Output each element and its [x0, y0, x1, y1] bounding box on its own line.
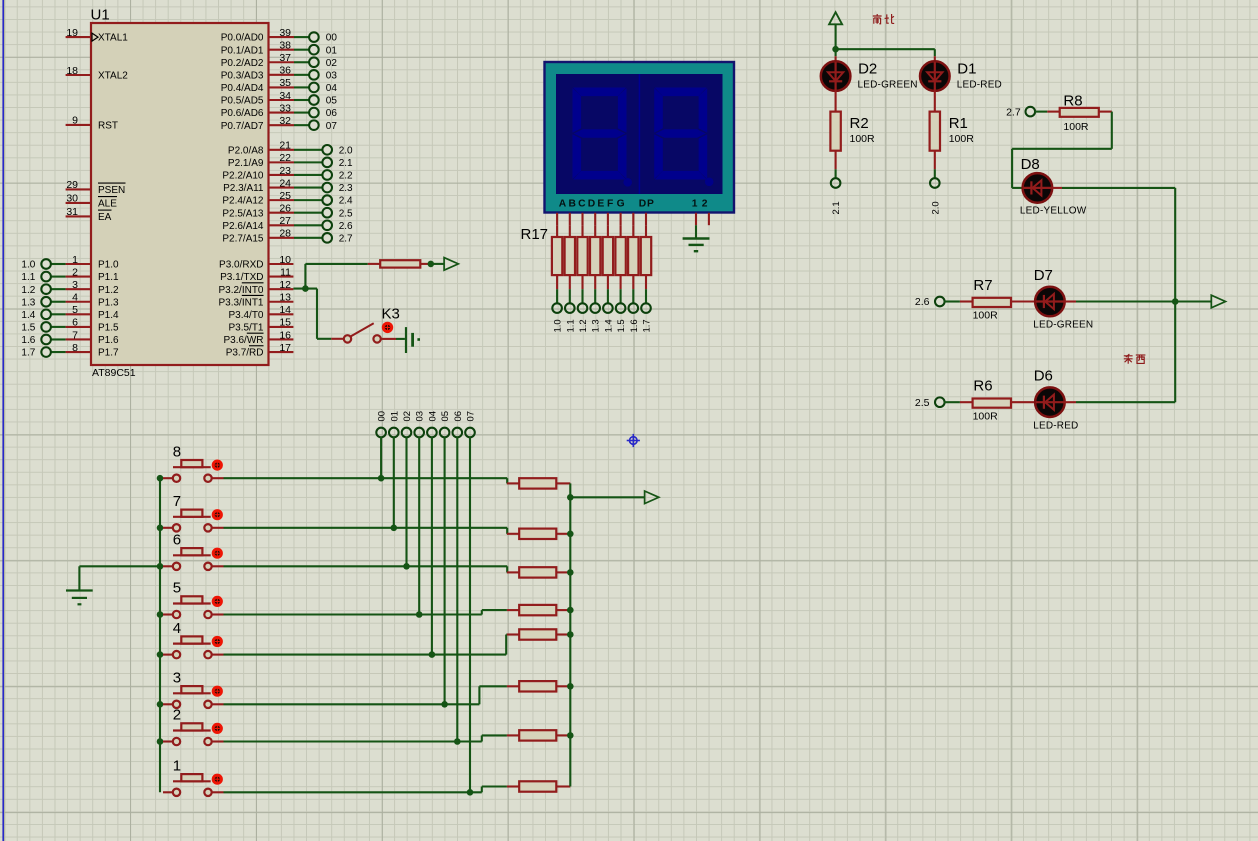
wire key 2 row	[212, 735, 507, 741]
svg-text:2.2: 2.2	[339, 171, 353, 182]
svg-text:3: 3	[72, 279, 78, 291]
svg-text:38: 38	[279, 39, 291, 51]
svg-text:100R: 100R	[973, 310, 999, 322]
svg-text:100R: 100R	[850, 133, 876, 145]
svg-text:06: 06	[453, 411, 464, 422]
pin 3 P1.2 with terminal 1.2	[21, 279, 119, 296]
svg-text:LED-RED: LED-RED	[957, 79, 1002, 90]
display common pin 2 (stub)	[708, 213, 710, 225]
svg-text:D1: D1	[957, 61, 976, 78]
wire key 8 row	[212, 478, 507, 483]
svg-text:100R: 100R	[1063, 121, 1089, 133]
pin 24 P2.3/A11 with terminal 2.3	[223, 177, 353, 194]
svg-text:11: 11	[280, 266, 291, 278]
pin 38 P0.1/AD1 with terminal 01	[221, 39, 338, 56]
pin 37 P0.2/AD2 with terminal 02	[221, 52, 338, 69]
svg-text:17: 17	[279, 342, 291, 354]
svg-text:8: 8	[72, 342, 78, 354]
junction node right bus row 5	[567, 607, 574, 614]
svg-text:2.7: 2.7	[1006, 106, 1021, 118]
svg-text:2: 2	[702, 199, 708, 210]
pin 26 P2.5/A13 with terminal 2.5	[222, 203, 353, 220]
svg-text:2.6: 2.6	[339, 221, 353, 232]
svg-text:P3.1/TXD: P3.1/TXD	[220, 272, 263, 283]
svg-text:4: 4	[173, 620, 181, 637]
resistor R17 element 6 with terminal 1.5	[615, 225, 627, 332]
svg-text:21: 21	[279, 140, 291, 152]
display digit 2 segments	[654, 88, 713, 187]
svg-text:P3.3/INT1: P3.3/INT1	[218, 297, 263, 308]
pull resistor key 8	[507, 478, 570, 488]
junction node right bus row 7	[567, 531, 574, 538]
svg-text:XTAL2: XTAL2	[98, 71, 128, 82]
svg-text:33: 33	[279, 102, 291, 114]
svg-text:5: 5	[173, 580, 181, 597]
svg-text:8: 8	[173, 443, 181, 460]
svg-text:P0.5/AD5: P0.5/AD5	[221, 96, 264, 107]
LED D2	[821, 61, 918, 91]
svg-text:RST: RST	[98, 121, 118, 132]
pin 16 P3.6/WR	[223, 329, 293, 346]
wire key 5 row	[212, 610, 507, 614]
svg-text:P1.3: P1.3	[98, 297, 119, 308]
svg-text:XTAL1: XTAL1	[98, 33, 128, 44]
svg-text:E: E	[597, 199, 604, 210]
output arrow terminal (key matrix)	[570, 491, 659, 504]
svg-text:6: 6	[173, 532, 181, 549]
svg-text:18: 18	[66, 65, 78, 77]
battery cell symbol	[406, 327, 420, 353]
svg-text:9: 9	[72, 115, 78, 127]
net label 东西	[1124, 354, 1146, 364]
svg-text:37: 37	[279, 52, 291, 64]
pin 27 P2.6/A14 with terminal 2.6	[222, 215, 353, 232]
LED D7	[1033, 267, 1093, 331]
dual 7-segment display body	[545, 62, 735, 213]
junction node right bus row 2	[567, 732, 574, 739]
pin 6 P1.5 with terminal 1.5	[21, 317, 119, 334]
output arrow terminal east-west	[1175, 295, 1225, 308]
svg-text:P0.1/AD1: P0.1/AD1	[221, 45, 264, 56]
svg-text:00: 00	[377, 411, 388, 422]
svg-text:1: 1	[173, 758, 181, 775]
svg-text:39: 39	[279, 27, 291, 39]
svg-text:06: 06	[326, 108, 338, 119]
svg-text:P0.3/AD3: P0.3/AD3	[221, 70, 264, 81]
junction node terminal 01 to row	[391, 525, 398, 532]
resistor R17 element 8 with terminal 1.7	[641, 225, 653, 332]
svg-text:30: 30	[66, 193, 78, 205]
svg-text:F: F	[607, 199, 613, 210]
resistor R17 element 5 with terminal 1.4	[603, 225, 615, 332]
svg-text:4: 4	[72, 292, 78, 304]
svg-text:2.0: 2.0	[339, 145, 353, 156]
svg-text:2.0: 2.0	[930, 201, 941, 214]
svg-text:01: 01	[326, 45, 338, 56]
svg-text:K3: K3	[382, 306, 400, 323]
junction node at power rail	[832, 46, 839, 53]
pin 25 P2.4/A12 with terminal 2.4	[222, 190, 353, 207]
svg-text:P3.4/T0: P3.4/T0	[228, 310, 263, 321]
svg-text:P1.4: P1.4	[98, 310, 119, 321]
svg-text:2.1: 2.1	[339, 158, 353, 169]
svg-text:02: 02	[326, 58, 338, 69]
pin 33 P0.6/AD6 with terminal 06	[221, 102, 338, 119]
resistor R1	[930, 90, 975, 214]
pull resistor key 2	[507, 730, 570, 740]
wire key 1 row	[212, 787, 507, 793]
pin 29 PSEN	[66, 179, 126, 196]
svg-text:P0.6/AD6: P0.6/AD6	[221, 108, 264, 119]
svg-text:1: 1	[72, 254, 78, 266]
svg-text:1.2: 1.2	[21, 285, 35, 296]
pin 28 P2.7/A15 with terminal 2.7	[222, 228, 353, 245]
pin 19 XTAL1	[66, 27, 129, 44]
svg-text:36: 36	[279, 65, 291, 77]
sheet border (left blue edge line)	[2, 0, 4, 841]
svg-text:29: 29	[66, 179, 78, 191]
svg-text:P3.5/T1: P3.5/T1	[228, 323, 263, 334]
svg-text:02: 02	[402, 411, 413, 422]
push button 6	[163, 532, 221, 571]
svg-text:P2.7/A15: P2.7/A15	[222, 233, 264, 244]
junction node bus row 8	[157, 475, 164, 482]
pin 23 P2.2/A10 with terminal 2.2	[222, 165, 353, 182]
svg-text:D7: D7	[1034, 267, 1053, 284]
resistor R2	[830, 90, 875, 214]
resistor R17 element 2 with terminal 1.1	[565, 225, 577, 332]
pin 11 P3.1/TXD	[220, 266, 293, 283]
svg-text:P2.3/A11: P2.3/A11	[223, 183, 264, 194]
wire D8 to east-west rail	[1052, 188, 1176, 402]
pin 36 P0.3/AD3 with terminal 03	[221, 65, 338, 82]
junction node bus row 5	[157, 611, 164, 618]
svg-text:AT89C51: AT89C51	[92, 367, 136, 379]
svg-text:P3.6/WR: P3.6/WR	[223, 335, 263, 346]
resistor R17 element 7 with terminal 1.6	[628, 225, 640, 332]
junction node bus row 4	[157, 651, 164, 658]
svg-text:ALE: ALE	[98, 199, 117, 210]
svg-text:10: 10	[279, 254, 291, 266]
svg-text:14: 14	[279, 304, 291, 316]
terminal 02 with wire to key row	[402, 411, 413, 566]
svg-text:P0.2/AD2: P0.2/AD2	[221, 58, 264, 69]
terminal 2.7 input	[1006, 106, 1047, 118]
value label AT89C51	[92, 367, 136, 379]
push button 3	[163, 670, 221, 709]
svg-text:R7: R7	[973, 277, 992, 294]
net label 南北	[873, 14, 894, 24]
junction node bus row 3	[157, 701, 164, 708]
junction node terminal 05 to row	[441, 701, 448, 708]
pin 32 P0.7/AD7 with terminal 07	[221, 115, 338, 132]
svg-text:P1.5: P1.5	[98, 323, 119, 334]
pin 35 P0.4/AD4 with terminal 04	[221, 77, 338, 94]
push button 5	[163, 580, 221, 619]
svg-text:1.7: 1.7	[642, 319, 653, 332]
svg-text:5: 5	[72, 304, 78, 316]
svg-text:3: 3	[173, 670, 181, 687]
terminal 04 with wire to key row	[427, 411, 438, 655]
junction node terminal 06 to row	[454, 738, 461, 745]
svg-text:R8: R8	[1063, 92, 1082, 109]
svg-text:R17: R17	[521, 226, 549, 243]
pin 13 P3.3/INT1	[218, 292, 293, 309]
svg-text:23: 23	[279, 165, 291, 177]
svg-text:34: 34	[279, 90, 291, 102]
junction node terminal 02 to row	[403, 563, 410, 570]
pull resistor key 6	[507, 567, 570, 577]
pin 15 P3.5/T1	[228, 317, 293, 334]
resistor R17 element 4 with terminal 1.3	[590, 225, 602, 332]
svg-text:16: 16	[279, 329, 291, 341]
push button 8	[163, 443, 221, 482]
push button 7	[163, 493, 221, 532]
wire net P3.2/INT0 to series resistor and K3	[293, 264, 367, 339]
svg-text:2.6: 2.6	[915, 296, 930, 308]
output arrow terminal (P3.0 row)	[431, 258, 459, 271]
junction node terminal 00 to row	[378, 475, 385, 482]
svg-text:27: 27	[279, 215, 291, 227]
svg-text:07: 07	[466, 411, 477, 422]
svg-text:P1.6: P1.6	[98, 335, 119, 346]
svg-text:1.4: 1.4	[21, 310, 35, 321]
svg-text:C: C	[578, 199, 586, 210]
svg-text:A: A	[559, 199, 567, 210]
wire key 4 row	[212, 635, 507, 655]
junction node bus row 6	[157, 563, 164, 570]
svg-text:P1.2: P1.2	[98, 285, 119, 296]
svg-text:01: 01	[389, 411, 400, 422]
svg-text:P2.0/A8: P2.0/A8	[228, 145, 264, 156]
svg-text:D6: D6	[1034, 368, 1053, 385]
resistor R17 element 3 with terminal 1.2	[577, 225, 589, 332]
terminal 06 with wire to key row	[453, 411, 464, 742]
wire key 6 row	[212, 566, 507, 572]
svg-text:100R: 100R	[949, 133, 975, 145]
svg-text:R1: R1	[949, 115, 968, 132]
pull resistor key 4	[507, 629, 570, 639]
push button 4	[163, 620, 221, 659]
pin 5 P1.4 with terminal 1.4	[21, 304, 119, 321]
svg-text:100R: 100R	[973, 410, 999, 422]
svg-text:12: 12	[279, 279, 291, 291]
svg-text:1.5: 1.5	[21, 323, 35, 334]
svg-text:1.1: 1.1	[21, 272, 35, 283]
svg-text:2.3: 2.3	[339, 183, 353, 194]
display digit 1 segments	[573, 88, 633, 187]
svg-text:1.6: 1.6	[629, 319, 640, 332]
svg-text:LED-YELLOW: LED-YELLOW	[1020, 205, 1087, 216]
terminal 07 with wire to key row	[465, 411, 476, 792]
display pin labels ABCDEFG DP 1 2	[559, 199, 708, 210]
LED D1	[920, 61, 1002, 91]
svg-text:1.3: 1.3	[591, 319, 602, 332]
junction node terminal 03 to row	[416, 611, 423, 618]
pull resistor key 7	[507, 529, 570, 539]
svg-text:P2.5/A13: P2.5/A13	[222, 208, 264, 219]
svg-text:1.2: 1.2	[578, 319, 589, 332]
svg-text:P0.7/AD7: P0.7/AD7	[221, 121, 264, 132]
junction node east-west rail	[1172, 298, 1179, 305]
svg-text:P1.7: P1.7	[98, 348, 119, 359]
LED D6	[1033, 368, 1078, 432]
svg-text:2.4: 2.4	[339, 196, 353, 207]
wire K3 left lead	[331, 338, 343, 340]
series resistor on P3.0 row (unlabeled)	[368, 260, 431, 267]
svg-text:R2: R2	[850, 115, 869, 132]
svg-text:26: 26	[279, 203, 291, 215]
svg-text:7: 7	[173, 493, 181, 510]
ground symbol (key matrix)	[66, 591, 93, 605]
svg-text:PSEN: PSEN	[98, 185, 125, 196]
pin 8 P1.7 with terminal 1.7	[21, 342, 119, 359]
svg-text:1.0: 1.0	[553, 319, 564, 332]
svg-text:25: 25	[279, 190, 291, 202]
pin 39 P0.0/AD0 with terminal 00	[221, 27, 338, 44]
svg-text:D8: D8	[1021, 156, 1040, 173]
svg-text:2.5: 2.5	[915, 397, 930, 409]
svg-text:13: 13	[279, 292, 291, 304]
svg-text:P0.4/AD4: P0.4/AD4	[221, 83, 264, 94]
junction node terminal 04 to row	[429, 651, 436, 658]
resistor R6	[960, 378, 1035, 423]
junction node bus row 2	[157, 738, 164, 745]
svg-text:P3.0/RXD: P3.0/RXD	[219, 260, 263, 271]
wire key 3 row	[212, 686, 507, 704]
right common bus wire	[569, 483, 571, 786]
pin 22 P2.1/A9 with terminal 2.1	[228, 152, 353, 169]
svg-text:22: 22	[279, 152, 291, 164]
svg-text:LED-GREEN: LED-GREEN	[1033, 320, 1093, 331]
wire key 7 row	[212, 528, 507, 534]
terminal 05 with wire to key row	[440, 411, 451, 704]
ground symbol under display	[683, 239, 710, 252]
pin 12 P3.2/INT0	[218, 279, 293, 296]
svg-text:1.6: 1.6	[21, 335, 35, 346]
push button 1	[163, 758, 221, 797]
pin 30 ALE	[66, 193, 118, 210]
svg-text:D: D	[588, 199, 595, 210]
pin 9 RST	[66, 115, 118, 132]
resistor R17 element 1 with terminal 1.0	[552, 225, 564, 332]
pin 18 XTAL2	[66, 65, 129, 82]
svg-text:03: 03	[326, 70, 338, 81]
pin 2 P1.1 with terminal 1.1	[21, 266, 119, 283]
wire R8 to D8	[1012, 112, 1112, 188]
svg-text:P2.6/A14: P2.6/A14	[222, 221, 264, 232]
left common bus wire	[159, 478, 161, 792]
svg-text:LED-RED: LED-RED	[1033, 420, 1078, 431]
svg-text:6: 6	[72, 317, 78, 329]
IC U1 AT89C51 body	[91, 23, 269, 365]
svg-text:05: 05	[440, 411, 451, 422]
pin 4 P1.3 with terminal 1.3	[21, 292, 119, 309]
display common pin 1	[695, 213, 697, 239]
svg-text:2: 2	[72, 266, 78, 278]
svg-text:24: 24	[279, 177, 291, 189]
pull resistor key 1	[507, 781, 570, 791]
junction node bus row 7	[157, 525, 164, 532]
LED D8	[1020, 156, 1087, 216]
svg-text:31: 31	[66, 206, 78, 218]
push button 2	[163, 707, 221, 746]
svg-text:P1.0: P1.0	[98, 260, 119, 271]
pin 21 P2.0/A8 with terminal 2.0	[228, 140, 353, 157]
junction node at P3.2 wire	[302, 285, 309, 292]
terminal 00 with wire to key row	[376, 411, 387, 478]
resistor R8	[1047, 92, 1112, 133]
svg-text:2: 2	[173, 707, 181, 724]
svg-text:28: 28	[279, 228, 291, 240]
pin 10 P3.0/RXD	[219, 254, 293, 271]
svg-text:P3.2/INT0: P3.2/INT0	[218, 285, 263, 296]
svg-text:04: 04	[326, 83, 338, 94]
pin 31 EA	[66, 206, 112, 223]
pin 14 P3.4/T0	[228, 304, 293, 321]
svg-text:G: G	[617, 199, 625, 210]
wire power to D2 and D1	[836, 49, 935, 62]
svg-text:P0.0/AD0: P0.0/AD0	[221, 33, 264, 44]
svg-text:P1.1: P1.1	[98, 272, 119, 283]
svg-text:00: 00	[326, 33, 338, 44]
svg-text:05: 05	[326, 96, 338, 107]
svg-text:19: 19	[66, 27, 78, 39]
origin marker (blue)	[627, 434, 640, 447]
svg-text:7: 7	[72, 329, 78, 341]
pin 34 P0.5/AD5 with terminal 05	[221, 90, 338, 107]
pin 1 P1.0 with terminal 1.0	[21, 254, 119, 271]
wire K3 right lead to cell	[381, 338, 405, 340]
svg-text:35: 35	[279, 77, 291, 89]
terminal 03 with wire to key row	[414, 411, 425, 615]
reference label U1	[91, 7, 110, 24]
svg-text:1.1: 1.1	[565, 319, 576, 332]
display segment pins A-DP	[557, 213, 646, 225]
svg-text:32: 32	[279, 115, 291, 127]
svg-text:15: 15	[279, 317, 291, 329]
svg-text:2.5: 2.5	[339, 208, 353, 219]
svg-text:1.5: 1.5	[616, 319, 627, 332]
pin 17 P3.7/RD	[226, 342, 294, 359]
switch K3	[344, 306, 400, 343]
svg-text:2.7: 2.7	[339, 233, 353, 244]
svg-text:U1: U1	[91, 7, 110, 24]
junction node right bus row 6	[567, 569, 574, 576]
svg-text:D2: D2	[858, 61, 877, 78]
svg-text:LED-GREEN: LED-GREEN	[858, 79, 918, 90]
svg-text:1.3: 1.3	[21, 297, 35, 308]
pin 7 P1.6 with terminal 1.6	[21, 329, 119, 346]
svg-text:07: 07	[326, 121, 338, 132]
svg-text:R6: R6	[973, 378, 992, 395]
svg-text:P2.1/A9: P2.1/A9	[228, 158, 264, 169]
svg-text:04: 04	[427, 411, 438, 422]
junction node right bus row 3	[567, 683, 574, 690]
terminal 2.6 input	[915, 296, 960, 308]
svg-text:1: 1	[692, 199, 698, 210]
resistor R7	[960, 277, 1035, 322]
reference label R17	[521, 226, 549, 243]
svg-text:P2.4/A12: P2.4/A12	[222, 196, 264, 207]
wire D6 to east-west rail	[1064, 401, 1175, 403]
svg-text:1.4: 1.4	[603, 319, 614, 332]
junction node after resistor	[428, 261, 435, 268]
svg-text:1.0: 1.0	[21, 260, 35, 271]
wire D7 to east-west rail	[1064, 300, 1175, 302]
wire ground to bus	[79, 566, 160, 590]
svg-text:DP: DP	[639, 199, 655, 210]
